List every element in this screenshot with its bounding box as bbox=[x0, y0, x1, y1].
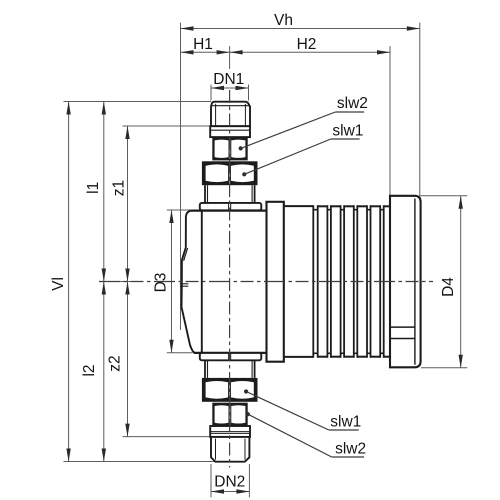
extension line right (flange outer edge) bbox=[419, 23, 421, 196]
svg-text:slw2: slw2 bbox=[337, 95, 368, 112]
sleeve top edge bbox=[284, 205, 314, 207]
dimension D4 line bbox=[459, 196, 463, 368]
rib crests bbox=[318, 206, 390, 356]
vertical centerline bbox=[229, 90, 231, 468]
extension line z1 top bbox=[123, 125, 211, 127]
clamp band bbox=[267, 202, 284, 362]
top thread bbox=[211, 102, 250, 127]
label H2 bbox=[297, 36, 317, 53]
top small hex bbox=[212, 137, 247, 160]
svg-text:l1: l1 bbox=[85, 182, 102, 194]
top gland bbox=[205, 185, 255, 203]
extension lines DN2 bbox=[211, 464, 249, 497]
label DN1 bbox=[213, 71, 244, 88]
dimension Vh line bbox=[181, 26, 420, 30]
label slw2 bottom bbox=[335, 441, 366, 458]
svg-text:H2: H2 bbox=[297, 36, 317, 53]
top plate bbox=[200, 203, 261, 210]
leader slw2 top bbox=[239, 112, 365, 150]
dimension D3 line bbox=[169, 210, 173, 353]
bottom gland bbox=[205, 360, 255, 378]
label D4 bbox=[440, 277, 457, 297]
flange face line bbox=[414, 199, 416, 365]
dimension z2 line bbox=[125, 282, 129, 437]
dimension H2 line bbox=[230, 50, 390, 54]
dimension DN1 line bbox=[211, 86, 249, 90]
svg-text:D4: D4 bbox=[440, 277, 457, 297]
flange outline bbox=[390, 196, 421, 367]
horizontal centerline bbox=[99, 281, 433, 283]
label slw1 bottom bbox=[330, 414, 361, 431]
body face tick marks bbox=[180, 284, 188, 286]
flange lug lines bbox=[391, 327, 415, 338]
label DN2 bbox=[214, 473, 245, 490]
svg-text:H1: H1 bbox=[193, 36, 213, 53]
body inner wall bbox=[201, 211, 203, 353]
body bottom edge bbox=[194, 352, 267, 354]
label l2 bbox=[81, 364, 98, 376]
extension lines D3 bbox=[167, 210, 193, 353]
svg-text:D3: D3 bbox=[152, 273, 169, 293]
svg-text:l2: l2 bbox=[81, 364, 98, 376]
label l1 bbox=[85, 182, 102, 194]
body top edge bbox=[191, 210, 267, 212]
extension lines DN1 bbox=[211, 85, 249, 101]
svg-text:slw1: slw1 bbox=[330, 414, 361, 431]
label H1 bbox=[193, 36, 213, 53]
svg-text:Vl: Vl bbox=[50, 277, 67, 291]
dimension z1 line bbox=[125, 126, 129, 282]
dimension l2 line bbox=[102, 282, 106, 462]
svg-text:Vh: Vh bbox=[274, 12, 293, 29]
label Vl bbox=[50, 277, 67, 291]
extension line fitting centerline top bbox=[229, 46, 231, 69]
leader slw1 bottom bbox=[244, 389, 359, 430]
sleeve bottom edge bbox=[284, 356, 314, 358]
dimension Vl line bbox=[66, 102, 70, 462]
label D3 bbox=[152, 273, 169, 293]
extension lines D4 bbox=[419, 196, 467, 368]
svg-text:slw1: slw1 bbox=[332, 123, 363, 140]
dimension l1 line bbox=[102, 102, 106, 282]
extension line center left bbox=[99, 281, 134, 283]
bottom large hex bbox=[202, 378, 258, 402]
bottom thread bbox=[211, 437, 249, 462]
svg-text:z2: z2 bbox=[107, 355, 124, 371]
extension line left (body left extreme) bbox=[180, 23, 182, 331]
top large hex bbox=[202, 161, 258, 185]
dimension H1 line bbox=[181, 50, 230, 54]
extension line thread bottom bbox=[64, 461, 216, 463]
label slw1 top bbox=[332, 123, 363, 140]
dimension DN2 line bbox=[211, 489, 249, 493]
label Vh bbox=[274, 12, 293, 29]
svg-text:DN2: DN2 bbox=[214, 473, 245, 490]
leader slw1 top bbox=[242, 139, 359, 176]
leader slw2 bottom bbox=[246, 412, 364, 457]
svg-text:slw2: slw2 bbox=[335, 441, 366, 458]
body left face bbox=[182, 211, 195, 353]
label z2 bbox=[107, 355, 124, 371]
label slw2 top bbox=[337, 95, 368, 112]
svg-text:DN1: DN1 bbox=[213, 71, 244, 88]
rib grooves bbox=[313, 205, 383, 357]
bottom collar bbox=[210, 426, 250, 437]
extension line thread top bbox=[64, 101, 212, 103]
label z1 bbox=[111, 180, 128, 196]
bottom plate bbox=[200, 353, 261, 360]
extension line flange left face bbox=[389, 46, 391, 195]
svg-text:z1: z1 bbox=[111, 180, 128, 196]
body face chamfer detail bbox=[184, 248, 188, 261]
extension line z2 bottom bbox=[123, 436, 211, 438]
bottom small hex bbox=[212, 403, 247, 426]
top collar bbox=[210, 126, 250, 137]
